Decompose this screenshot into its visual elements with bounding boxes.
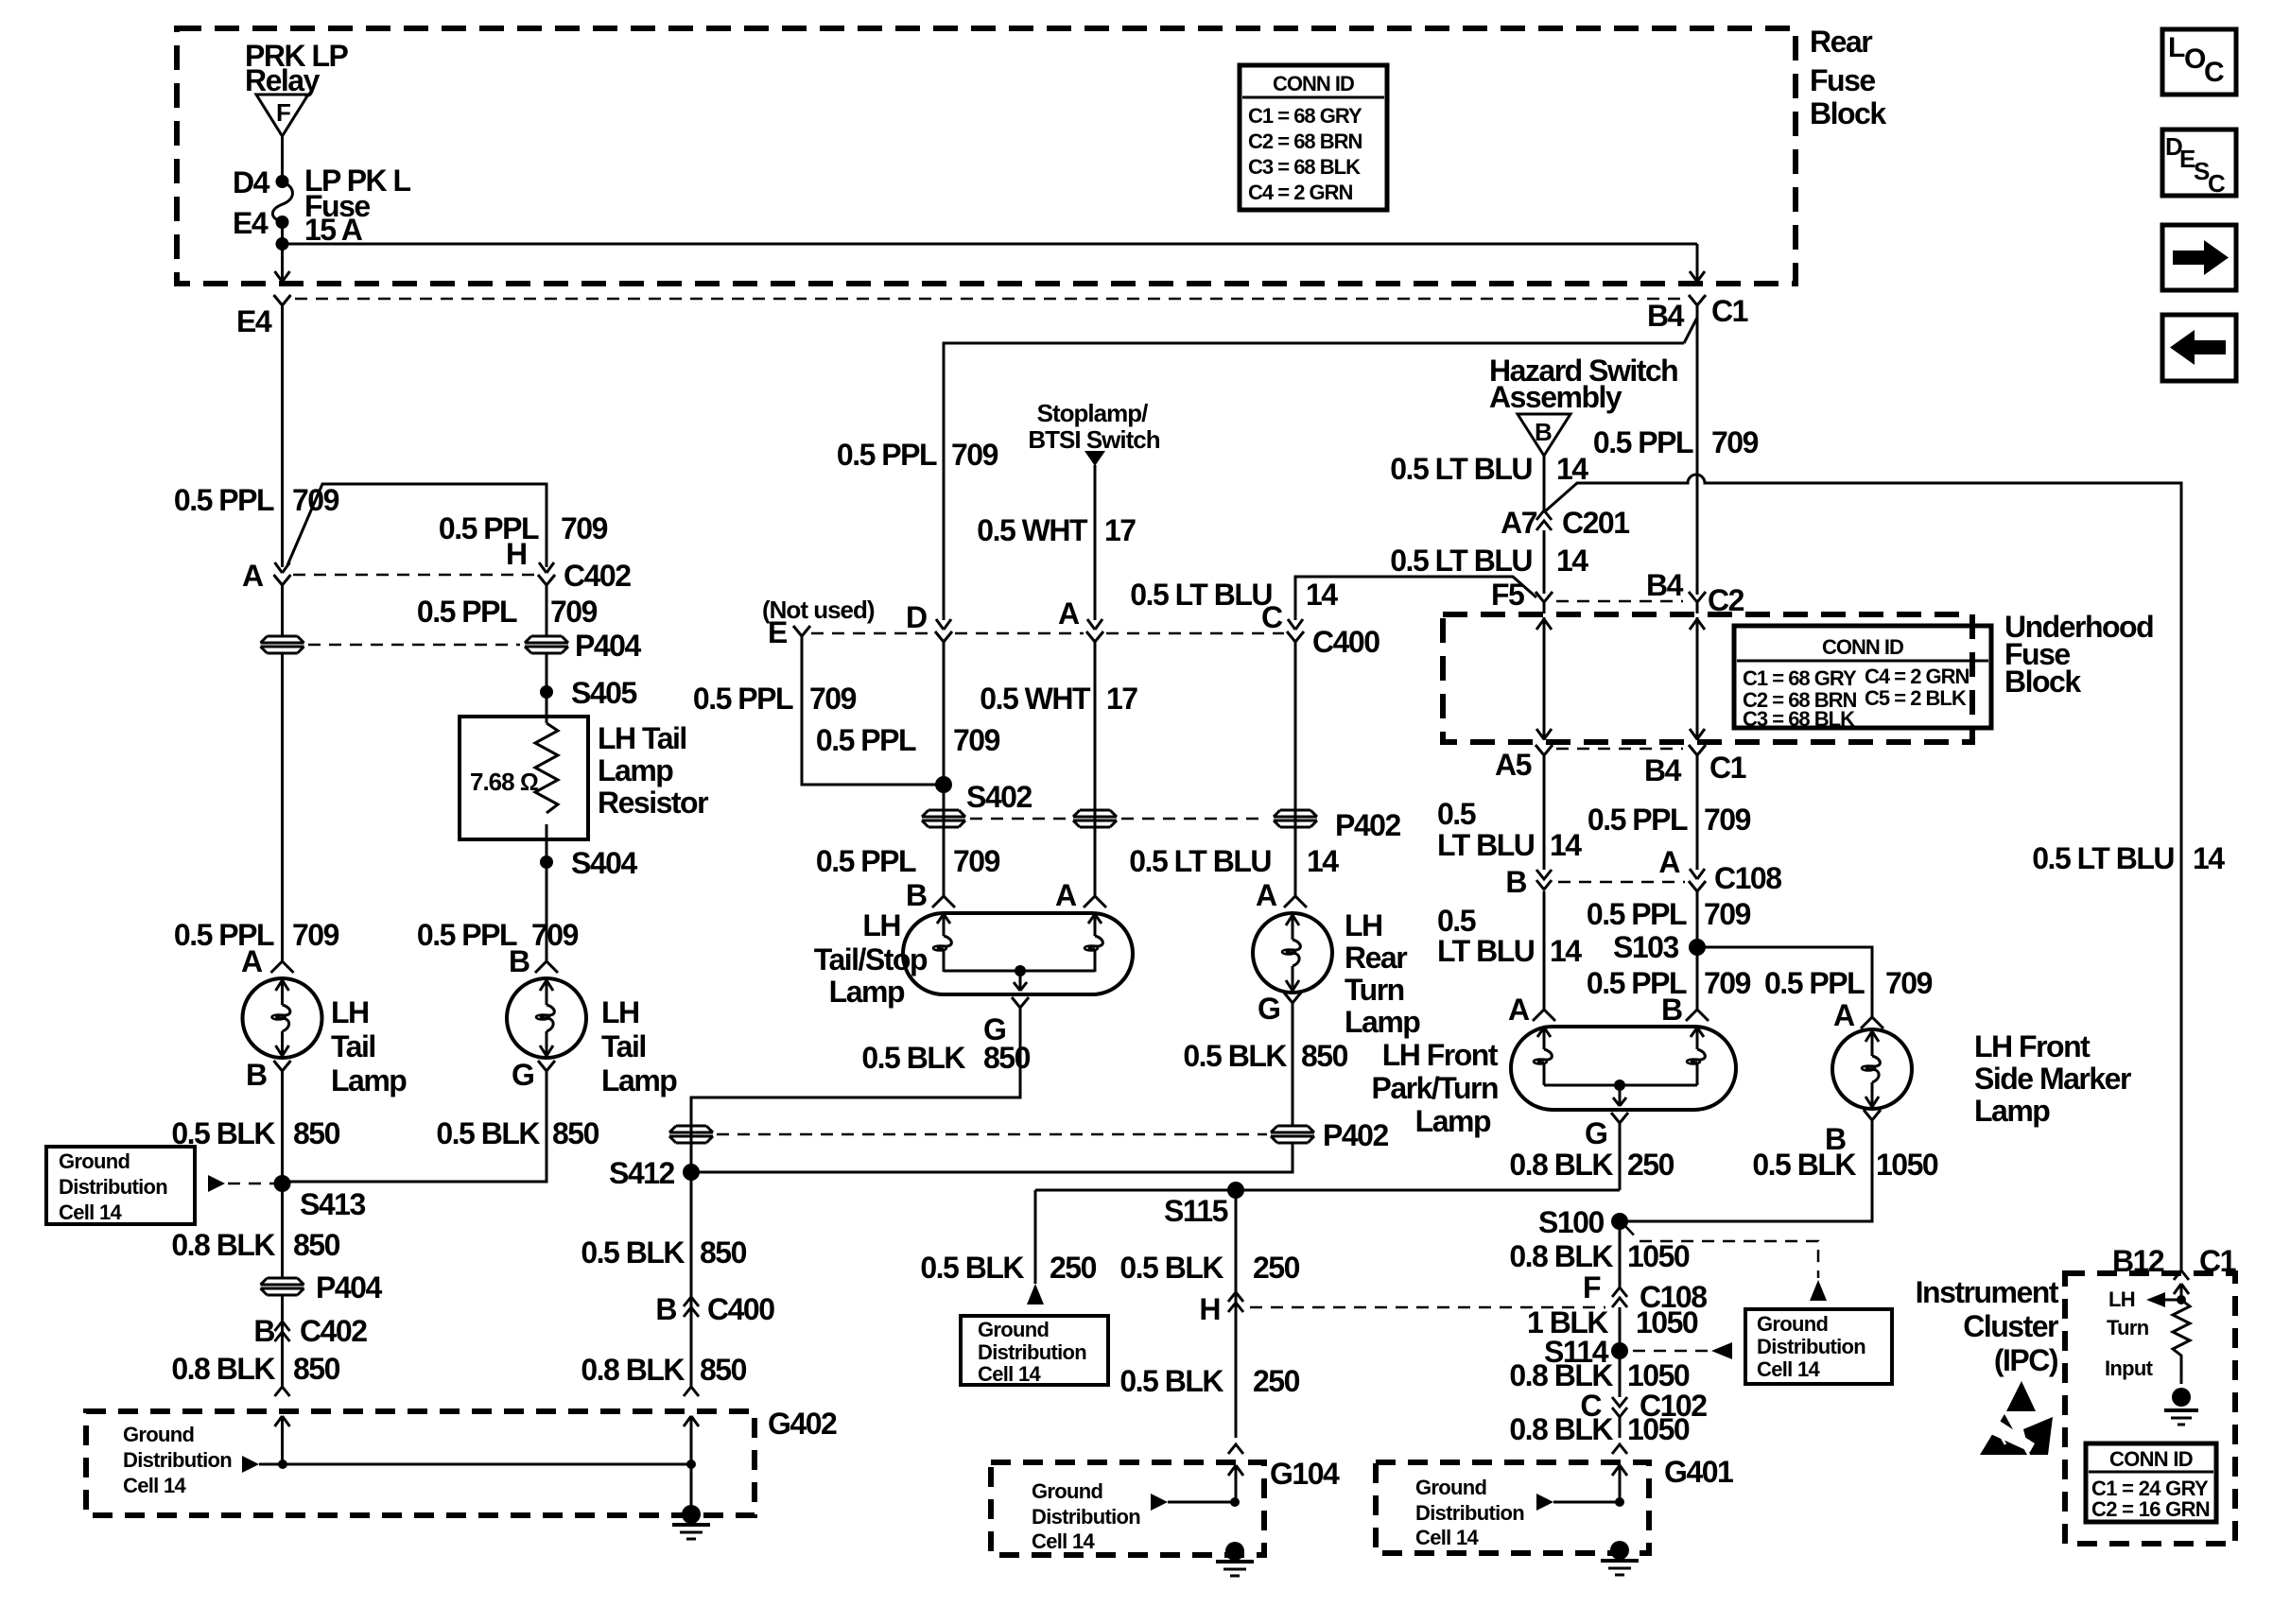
svg-text:LH: LH [862,908,900,942]
park/turn internal bus [1544,1080,1697,1106]
pin A arrow and connector C400 [1058,596,1103,653]
wire B4-C1 branch to C400-D [944,343,1684,620]
pin B4/C1 connector (underhood) [1644,745,1746,787]
splice S114 [1544,1335,1628,1369]
label 0.5 PPL 709 (E4 wire) [174,483,339,517]
label 0.5 LT BLU 14 (A5 wire) [1437,797,1582,862]
G104 ground dashed box [991,1462,1264,1555]
svg-text:Tail: Tail [601,1029,646,1063]
svg-text:709: 709 [561,511,608,545]
svg-text:709: 709 [292,918,339,952]
arrow into ground ref box 2 [1027,1284,1044,1304]
CONN ID table (IPC) [2086,1443,2216,1522]
tail/stop internal bus [944,965,1095,991]
svg-text:0.5 WHT: 0.5 WHT [980,682,1091,716]
underhood internal wire (F5-A5) [1536,617,1552,740]
svg-text:0.5 BLK: 0.5 BLK [1752,1148,1856,1182]
pin B4/C1 connector [1647,294,1748,333]
svg-text:P404: P404 [316,1270,382,1304]
svg-text:709: 709 [809,682,857,716]
svg-text:Lamp: Lamp [601,1063,677,1097]
svg-text:C2 = 68 BRN: C2 = 68 BRN [1248,130,1362,153]
svg-text:A: A [1055,878,1077,912]
svg-text:S100: S100 [1538,1205,1604,1239]
label 0.5 PPL 709 (side marker) [1764,966,1933,1000]
svg-text:0.5 BLK: 0.5 BLK [1119,1364,1223,1398]
svg-text:0.5 LT BLU: 0.5 LT BLU [1129,844,1271,878]
svg-text:Rear: Rear [1345,941,1407,975]
svg-text:C: C [2208,169,2226,198]
connector C400 dashed line [811,632,1284,635]
CONN ID table (Rear Fuse Block) [1240,65,1387,210]
pin E4 arrow [275,271,290,282]
wire tail/stop lamp G to S412 [691,1019,1020,1172]
svg-text:A: A [242,559,264,593]
G104 Ground Distribution text [1032,1479,1140,1553]
label 0.5 LT BLU 14 (above C400 C) [1130,578,1338,612]
svg-text:B: B [1661,993,1682,1027]
fuse LP PK L 15A symbol [272,181,292,222]
svg-text:709: 709 [1704,897,1751,931]
svg-text:709: 709 [1711,425,1759,459]
svg-text:Cell 14: Cell 14 [59,1201,122,1224]
connector dashed line F5 to C2 [1556,600,1683,603]
svg-text:14: 14 [1556,544,1588,578]
svg-text:C: C [1261,600,1283,634]
wire relay to fuse [281,136,284,181]
wire C1 to C2 (main PPL drop) [1696,317,1699,595]
grommet P404 (right wire) [525,629,641,663]
grommet P402 (rear turn feed) [1274,653,1400,896]
label 0.5 PPL 709 (C1 wire) [1588,803,1751,837]
splice S412 [609,1156,700,1190]
svg-text:850: 850 [1301,1039,1348,1073]
svg-text:0.5 PPL: 0.5 PPL [1588,803,1688,837]
svg-text:17: 17 [1104,513,1136,547]
svg-text:C3 = 68 BLK: C3 = 68 BLK [1743,707,1855,731]
splice S100 [1538,1205,1628,1239]
G402 internal arrow and bus [242,1456,696,1473]
svg-text:850: 850 [983,1041,1031,1075]
svg-text:F5: F5 [1491,578,1524,612]
label 0.5 BLK 850 (tail lamp 2) [436,1116,599,1150]
arrow from ground ref box 1 to S413 [208,1175,276,1192]
wire resistor to tail lamp B [546,824,548,961]
label 0.5 BLK 1050 [1752,1148,1938,1182]
svg-text:0.8 BLK: 0.8 BLK [1509,1412,1613,1446]
svg-text:Rear: Rear [1810,25,1872,59]
pin A connector (park/turn lamp) [1508,993,1555,1027]
wire S412 to rear turn lamp G leg [691,1144,1293,1172]
label 0.5 LT BLU 14 (hazard) [1390,452,1588,486]
wire main feed down at C1 [1696,244,1699,281]
resistor R LH tail lamp box [460,717,588,839]
svg-text:Turn: Turn [1345,973,1404,1007]
label 0.5 PPL 709 (above S103) [1587,897,1751,931]
pin into G401 [1612,1444,1627,1502]
svg-text:14: 14 [1550,934,1582,968]
svg-text:709: 709 [1885,966,1933,1000]
svg-text:C1 = 68 GRY: C1 = 68 GRY [1743,666,1857,690]
G104 ground symbol [1216,1542,1254,1576]
svg-text:0.5 LT BLU: 0.5 LT BLU [1130,578,1272,612]
svg-text:Lamp: Lamp [598,753,673,787]
label 0.5 PPL 709 (branch) [439,511,608,545]
svg-text:LH: LH [1345,908,1382,942]
Rear Fuse Block label [1810,25,1886,130]
pin B4/C2 connector [1646,568,1744,617]
svg-text:14: 14 [1550,828,1582,862]
G402 ground dashed box [86,1411,755,1515]
grommet dashed tie to P402 [717,1133,1267,1136]
wire drop to E4 pin [281,244,284,281]
wire S115 branch to ground ref [1034,1190,1037,1284]
pin A5 connector [1495,745,1553,782]
label 0.8 BLK 850 (below C402 B) [171,1352,339,1386]
G401 ground symbol [1601,1541,1639,1575]
svg-text:D4: D4 [233,165,270,199]
pin B connector C400 (ground) [655,1292,774,1326]
svg-text:S412: S412 [609,1156,674,1190]
svg-text:0.5 BLK: 0.5 BLK [436,1116,540,1150]
pin A arrowheads [275,562,290,573]
svg-text:C5 = 2 BLK: C5 = 2 BLK [1865,686,1967,710]
grommet P404 (left wire) [261,636,304,653]
splice S402 [935,776,1032,814]
wire A5 to C108-B [1543,767,1546,870]
hazard switch triangle B [1518,414,1570,456]
svg-text:LH: LH [601,995,639,1029]
pin F5 connector [1491,578,1553,613]
svg-text:709: 709 [550,595,598,629]
svg-text:H: H [1199,1292,1220,1326]
svg-text:G: G [1585,1116,1606,1150]
splice S115 [1164,1182,1244,1228]
svg-text:C1: C1 [1711,294,1748,328]
connector boundary dashed line (rear fuse block) [295,298,1685,301]
svg-text:Lamp: Lamp [1974,1094,2050,1128]
pin G connector (tail/stop lamp) [983,997,1029,1046]
svg-text:Assembly: Assembly [1489,380,1622,414]
pin B4 arrow (rear fuse block C1) [1690,271,1705,282]
ground ref box 2 (solid, at S115 branch) [961,1316,1108,1386]
svg-text:LH Tail: LH Tail [598,721,686,755]
grommet dashed tie P404 [308,644,520,647]
wire branch A to C402-H [287,484,547,567]
svg-text:C1: C1 [1709,751,1746,785]
lamp LH Tail Lamp 2 [507,978,677,1097]
svg-text:B4: B4 [1647,299,1685,333]
wire into IPC [2174,1284,2189,1300]
CONN ID table (Underhood Fuse Block) [1734,626,1991,731]
left-arrow button box [2162,315,2236,381]
svg-text:0.5: 0.5 [1437,797,1476,831]
svg-text:B: B [253,1314,274,1348]
wire turn signal run to IPC [1545,475,2181,1270]
wire S412 down to C400-B [690,1172,693,1387]
svg-text:0.5 PPL: 0.5 PPL [174,483,274,517]
svg-text:CONN ID: CONN ID [2109,1447,2193,1471]
svg-text:Block: Block [2004,665,2081,699]
wire C102 to G401 [1619,1417,1622,1438]
svg-text:Relay: Relay [245,63,321,97]
node E4 [233,206,289,240]
svg-text:Park/Turn: Park/Turn [1372,1071,1499,1105]
connector C402 dashed line [293,574,535,577]
svg-text:Ground: Ground [978,1318,1049,1341]
svg-text:0.5 PPL: 0.5 PPL [1587,897,1687,931]
svg-text:P402: P402 [1323,1118,1388,1152]
label 0.5 BLK 850 (tail lamp 1) [171,1116,339,1150]
Hazard Switch Assembly label [1489,354,1677,414]
ESD symbol [1980,1381,2053,1455]
svg-text:0.5 BLK: 0.5 BLK [1183,1039,1287,1073]
svg-text:Cell 14: Cell 14 [1415,1526,1479,1549]
wire P404 to C402-B [281,1296,284,1387]
svg-text:G: G [512,1058,533,1092]
svg-text:850: 850 [293,1352,340,1386]
wire C108-A to S103 [1696,903,1699,1010]
pin B connector (side marker lamp) [1825,1110,1881,1156]
svg-text:A5: A5 [1495,748,1532,782]
pin into G104 [1228,1444,1243,1502]
pin B connector (tail lamp 2) [509,944,558,978]
svg-text:B: B [906,878,927,912]
svg-text:Lamp: Lamp [1415,1104,1491,1138]
svg-text:Distribution: Distribution [59,1175,167,1199]
svg-text:850: 850 [700,1353,747,1387]
svg-text:C2 = 16 GRN: C2 = 16 GRN [2091,1497,2210,1521]
label 0.8 BLK 1050 (below S114) [1509,1358,1690,1392]
label 0.8 BLK 850 [171,1228,339,1262]
label LH Front Park/Turn Lamp [1372,1038,1499,1138]
pin H connector C402 [506,537,631,596]
pin B connector (park/turn lamp) [1661,993,1709,1027]
wire rear turn lamp G to P402 [1292,1013,1294,1125]
label 0.5 PPL 709 (E branch) [693,682,857,716]
svg-text:14: 14 [1556,452,1588,486]
svg-text:0.5 LT BLU: 0.5 LT BLU [2032,841,2174,875]
label 0.8 BLK 1050 (S100) [1509,1239,1690,1273]
svg-text:0.5 PPL: 0.5 PPL [816,844,916,878]
lamp LH Tail Lamp 1 [243,978,408,1097]
svg-text:0.5 PPL: 0.5 PPL [837,438,937,472]
svg-text:C1 = 68 GRY: C1 = 68 GRY [1248,104,1362,128]
wire S115 bus [1035,1189,1620,1192]
wire S115 to C102-H [1235,1190,1238,1438]
G401 internal arrow and wire [1536,1494,1624,1511]
label 0.8 BLK 1050 (to G401) [1509,1412,1690,1446]
svg-text:15 A: 15 A [304,213,363,247]
svg-text:0.5 PPL: 0.5 PPL [1593,425,1693,459]
svg-text:Distribution: Distribution [1032,1505,1140,1529]
pin H arrow [539,562,554,573]
lamp LH Tail/Stop Lamp body [903,913,1133,994]
svg-text:0.8 BLK: 0.8 BLK [1509,1239,1613,1273]
svg-text:S405: S405 [571,676,636,710]
svg-text:S404: S404 [571,846,637,880]
svg-text:C402: C402 [300,1314,367,1348]
svg-text:850: 850 [293,1228,340,1262]
svg-text:LH Front: LH Front [1974,1029,2091,1063]
tail/stop filament B [933,913,951,972]
svg-text:Ground: Ground [1032,1479,1102,1503]
svg-text:Ground: Ground [123,1423,194,1446]
resistor LH turn input [2173,1300,2190,1384]
svg-text:G: G [1258,992,1279,1026]
svg-text:B12: B12 [2112,1244,2164,1278]
label 0.5 PPL 709 (below grommet) [816,844,1000,878]
pin E4 connector [236,295,291,338]
wire hazard B to C201-A7 [1543,456,1546,510]
svg-text:LH: LH [2108,1287,2135,1311]
relay PRK LP label [245,39,349,97]
svg-text:Lamp: Lamp [829,975,905,1009]
svg-text:Distribution: Distribution [978,1340,1086,1364]
svg-text:B: B [509,944,529,978]
wire tail lamp 2 G to S413 [289,1082,547,1182]
dashed ref from S100 to ground ref box 2 region [1625,1226,1827,1301]
wire C108-B to park/turn A [1543,891,1546,1010]
Turn Input labels [2105,1316,2154,1380]
svg-text:H: H [506,537,527,571]
pin C arrow and connector C400 [1261,600,1379,659]
pin B connector (tail lamp 1) [246,1058,291,1092]
svg-text:S413: S413 [300,1187,365,1221]
svg-text:Distribution: Distribution [123,1448,232,1472]
pin A connector (tail/stop lamp) [1055,878,1106,912]
svg-text:C3 = 68 BLK: C3 = 68 BLK [1248,155,1361,179]
svg-text:S402: S402 [966,780,1032,814]
label 0.5 BLK 850 (rear turn) [1183,1039,1347,1073]
pin G connector (park/turn lamp) [1585,1113,1628,1150]
svg-text:17: 17 [1106,682,1137,716]
svg-text:0.5 BLK: 0.5 BLK [171,1116,275,1150]
G402 ground symbol [672,1505,710,1539]
Instrument Cluster label [1916,1275,2059,1377]
svg-text:G401: G401 [1664,1455,1733,1489]
park/turn filament A [1534,1027,1552,1085]
ground ref box 3 (solid, at S114) [1745,1309,1892,1384]
svg-text:250: 250 [1627,1148,1674,1182]
svg-text:Cell 14: Cell 14 [123,1474,186,1497]
pin B connector C402 (ground) [253,1314,367,1348]
svg-text:0.5 BLK: 0.5 BLK [581,1235,685,1270]
svg-text:LH: LH [331,995,369,1029]
pin into G402 (left) [275,1387,290,1464]
underhood internal wire (C2-C1) [1690,617,1705,740]
pin G connector (rear turn lamp) [1258,992,1301,1026]
svg-text:14: 14 [2193,841,2225,875]
svg-text:L: L [2168,32,2185,63]
svg-text:0.5 PPL: 0.5 PPL [417,918,517,952]
Stoplamp/BTSI switch stub [1084,451,1105,620]
wire S413 to P404 [281,1183,284,1277]
svg-text:Side Marker: Side Marker [1974,1062,2131,1096]
wire S114 to C102-C [1619,1351,1622,1397]
pin B connector C108 [1505,865,1552,899]
svg-text:BTSI Switch: BTSI Switch [1028,425,1159,454]
pin B connector (tail/stop lamp) [906,878,955,912]
svg-text:Lamp: Lamp [331,1063,407,1097]
svg-text:Ground: Ground [59,1149,130,1173]
svg-text:B4: B4 [1646,568,1684,602]
label 0.5 PPL 709 (below S103) [1587,966,1751,1000]
Rear Fuse Block dashed box [177,28,1796,284]
svg-text:Ground: Ground [1415,1476,1486,1499]
svg-text:1050: 1050 [1876,1148,1938,1182]
wire S103 branch to side marker [1697,947,1872,1017]
pin F connector C108 [1583,1270,1707,1314]
label 0.8 BLK 850 (S412 lower) [581,1353,746,1387]
svg-text:0.8 BLK: 0.8 BLK [1509,1358,1613,1392]
svg-text:C: C [2204,57,2225,88]
grommet P404 (ground wire) [261,1270,383,1304]
lamp LH Front Side Marker Lamp [1832,1029,2131,1128]
svg-text:C400: C400 [1312,625,1379,659]
label 0.5 PPL 709 (below C402 H) [417,595,598,629]
label 0.5 PPL 709 (C400 D wire) [837,438,998,472]
svg-text:C4 = 2 GRN: C4 = 2 GRN [1865,665,1969,688]
wire park/turn G to S115 bus [1619,1134,1622,1190]
svg-text:850: 850 [552,1116,599,1150]
wire S100 to C108-F [1619,1221,1622,1287]
grommet dashed tie row P402 [970,818,1267,821]
svg-text:F: F [1583,1270,1601,1304]
svg-text:0.5 LT BLU: 0.5 LT BLU [1390,544,1532,578]
svg-text:0.5 PPL: 0.5 PPL [1764,966,1865,1000]
svg-text:250: 250 [1253,1364,1300,1398]
grommet (tail/stop B wire) [922,810,965,827]
svg-text:1050: 1050 [1636,1305,1698,1339]
pin A connector (tail lamp 1) [241,944,294,978]
svg-text:0.5 BLK: 0.5 BLK [920,1251,1024,1285]
svg-text:C402: C402 [564,559,631,593]
pin C connector C102 [1580,1389,1707,1423]
grommet P402 (rear turn ground) [1271,1118,1388,1152]
label 0.5 PPL 709 (above S402) [816,723,1000,757]
svg-text:Cell 14: Cell 14 [1032,1529,1095,1553]
svg-text:1050: 1050 [1627,1358,1690,1392]
svg-text:LT BLU: LT BLU [1437,934,1535,968]
svg-text:14: 14 [1306,578,1338,612]
G402 Ground Distribution text [123,1423,232,1497]
fuse labels [304,164,411,247]
IPC internal ground [2164,1388,2198,1425]
svg-text:A7: A7 [1501,506,1537,540]
svg-text:A: A [241,944,263,978]
pin G connector (tail lamp 2) [512,1058,555,1092]
svg-text:LH Front: LH Front [1382,1038,1499,1072]
svg-text:C108: C108 [1714,861,1781,895]
svg-text:E: E [768,615,788,649]
grommet (tail/stop A wire) [1073,653,1117,896]
wire C201 to F5 [1543,530,1546,594]
Underhood Fuse Block label [2004,610,2153,699]
svg-text:B: B [655,1292,676,1326]
G401 Ground Distribution text [1415,1476,1524,1549]
svg-text:Ground: Ground [1757,1312,1828,1336]
splice S404 [540,846,637,880]
svg-text:Fuse: Fuse [1810,63,1875,97]
park/turn filament B [1687,1027,1705,1085]
svg-text:C1: C1 [2199,1244,2236,1278]
wire side marker B to S100 [1620,1132,1872,1221]
connector dashed line A5 to C1 [1556,748,1683,751]
label 0.5 LT BLU 14 (C108 B wire) [1437,904,1582,968]
connector C108 dashed line [1558,881,1685,884]
svg-text:A: A [1256,878,1277,912]
